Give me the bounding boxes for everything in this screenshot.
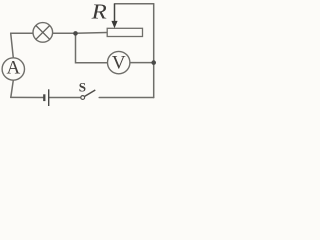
svg-text:V: V <box>112 52 126 73</box>
svg-text:A: A <box>7 58 21 79</box>
svg-text:R: R <box>91 0 107 23</box>
svg-text:S: S <box>79 79 86 94</box>
